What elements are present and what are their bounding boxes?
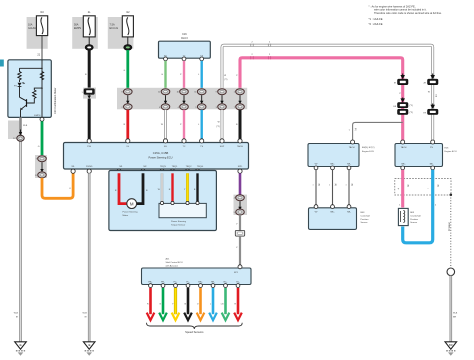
meter internal wire right branch <box>41 60 43 118</box>
camshaft position sensor box B63 <box>309 208 357 230</box>
svg-text:G: G <box>38 146 40 148</box>
PS ECU top pin SIL <box>163 139 167 143</box>
svg-text:GAUGE: GAUGE <box>28 27 37 30</box>
svg-text:W: W <box>428 92 430 94</box>
svg-text:EMPS: EMPS <box>74 27 81 30</box>
svg-text:PGND: PGND <box>86 166 93 168</box>
svg-text:NE-: NE- <box>347 212 351 214</box>
wire gray SPD to inline connector <box>239 215 241 231</box>
svg-text:BR: BR <box>449 343 453 347</box>
svg-text:I10: I10 <box>40 11 44 14</box>
svg-text:Power Steering ECU: Power Steering ECU <box>149 155 173 159</box>
ground symbol PGND <box>83 342 95 356</box>
svg-text:(*1): (*1) <box>410 105 414 107</box>
svg-text:Sensor: Sensor <box>361 221 368 224</box>
wire pink DLC3 TC <box>183 61 185 89</box>
gray harness band middle <box>117 88 247 110</box>
brace speed sensors <box>147 323 243 329</box>
svg-text:(*2): (*2) <box>410 112 414 114</box>
svg-text:with Actuator: with Actuator <box>166 265 179 268</box>
wire pink NE+ to crankshaft sensor <box>401 170 404 208</box>
wire gray shield to ground <box>449 276 452 342</box>
svg-text:EMPS: EMPS <box>34 115 41 117</box>
junction connector on black wire <box>83 88 96 99</box>
meter internal base network <box>34 88 42 90</box>
wire white SUP up and across to PS pin of E05 ECU <box>222 45 433 140</box>
svg-text:TACH: TACH <box>349 146 355 149</box>
wire white band to SIL <box>161 110 166 141</box>
arrow and connector on white PS wire lower <box>424 104 438 115</box>
inline connector on SPD wire <box>235 231 244 237</box>
svg-text:C16: C16 <box>182 33 187 36</box>
connector pair on TS wire <box>194 89 206 110</box>
svg-text:W: W <box>218 122 220 124</box>
svg-text:Power Steering: Power Steering <box>171 220 187 223</box>
shield ground circle <box>447 268 455 276</box>
wire pink TACH across to E05 ECU <box>240 58 403 141</box>
connector pair on SIL wire <box>158 89 170 110</box>
wire blue band to TS <box>200 110 202 141</box>
svg-text:RL-: RL- <box>236 282 240 284</box>
wire black TRQG <box>196 173 198 202</box>
fuse F3 7.5A ECU-IG <box>110 11 134 37</box>
connector pair on SUP wire <box>216 89 227 110</box>
svg-text:W-B: W-B <box>23 125 28 127</box>
connector pair on green/red wire <box>121 89 132 110</box>
fuse F1 10A GAUGE <box>28 11 48 36</box>
skid control ECU A21 box <box>142 268 252 285</box>
arrow and connector on white PS wire upper <box>424 74 438 85</box>
gray harness band fuse F2 <box>72 17 98 49</box>
svg-text:NE-: NE- <box>347 163 351 165</box>
svg-text:Engine ECU: Engine ECU <box>445 151 457 153</box>
svg-text:TC: TC <box>183 146 186 148</box>
svg-text:W-B: W-B <box>82 313 87 315</box>
svg-text:NE-: NE- <box>430 163 434 165</box>
svg-text:Position: Position <box>410 218 419 221</box>
svg-text:(E): (E) <box>354 128 356 131</box>
svg-text:O: O <box>69 188 71 190</box>
gray band connector pair on green wire <box>35 155 47 178</box>
ground wire W-B from meter <box>19 117 22 341</box>
svg-text:W-B: W-B <box>14 313 19 315</box>
A21 bottom pin FL+ and speed sensor wire <box>172 282 180 321</box>
wire yellow TRQ2 <box>184 173 188 202</box>
power steering ECU box <box>64 143 249 170</box>
svg-text:G: G <box>123 70 125 72</box>
engine ECU 1 box <box>308 144 359 167</box>
PS ECU top pin IG <box>126 139 130 143</box>
svg-text:Therefore wire color code is s: Therefore wire color code is shown as li… <box>374 11 442 15</box>
wire red band to IG <box>126 110 129 141</box>
svg-text:RR-: RR- <box>211 282 215 284</box>
DLC3 connector box C16 <box>159 41 211 58</box>
PS ECU top pin TC <box>182 139 186 143</box>
shield junction dot <box>450 194 453 197</box>
gray band below meter left pin <box>8 121 20 140</box>
svg-text:I12: I12 <box>126 11 130 14</box>
wire red TRQ1 <box>171 173 173 202</box>
svg-text:(E): (E) <box>317 184 319 187</box>
engine ECU 1 pin TACH <box>351 140 355 144</box>
shield drain dotted wire <box>450 195 452 268</box>
svg-text:Speed Sensors: Speed Sensors <box>185 330 204 334</box>
svg-text:*: * <box>313 185 314 188</box>
connector pair EB1 on pink TACH wire <box>394 98 414 115</box>
svg-text:Camshaft: Camshaft <box>361 214 371 217</box>
svg-text:(*2): (*2) <box>224 79 227 81</box>
engine ECU 2 box E05 <box>395 144 443 167</box>
wire black M- to motor <box>137 173 143 203</box>
arrow on ground wire <box>20 130 22 133</box>
svg-text:IE: IE <box>88 343 91 347</box>
svg-text:SPD: SPD <box>238 166 243 168</box>
A21 bottom pin RR- and speed sensor wire <box>209 282 217 321</box>
wire light green DLC3 SIL <box>164 61 166 89</box>
wire blue NE- loop to crankshaft sensor <box>403 170 433 243</box>
wire white band to SUP <box>216 110 222 141</box>
svg-text:G: G <box>161 74 163 76</box>
svg-text:BR: BR <box>453 317 456 319</box>
round connector IH1 <box>17 135 24 141</box>
svg-text:Skid Control ECU: Skid Control ECU <box>166 261 184 264</box>
svg-text:Power Steering: Power Steering <box>123 211 139 214</box>
svg-text:Motor: Motor <box>123 214 129 217</box>
svg-text:Sensor: Sensor <box>410 221 417 224</box>
power steering motor and torque sensor assembly box <box>109 171 216 231</box>
svg-text:*: * <box>329 185 330 188</box>
svg-text:(E): (E) <box>350 184 352 187</box>
teal page-link mark <box>0 60 4 67</box>
connector below fuse F3 <box>127 37 129 45</box>
PS ECU top pin SUP <box>220 139 224 143</box>
ground symbol IE <box>15 342 27 356</box>
motor M1 power steering motor <box>127 199 137 209</box>
arrow and connector E04 on pink TACH wire <box>394 74 408 85</box>
resistor R3 base <box>27 90 36 103</box>
svg-text:(E): (E) <box>407 185 409 188</box>
svg-text:PIG: PIG <box>87 146 91 148</box>
svg-text:C10 Combination Meter: C10 Combination Meter <box>54 87 57 114</box>
gray harness band fuse F1 <box>27 17 48 49</box>
svg-text:M: M <box>130 201 134 206</box>
fuse F2 50A EMPS <box>74 11 95 37</box>
svg-text:FR-: FR- <box>161 282 165 284</box>
PS ECU top pin TACH <box>238 139 242 143</box>
wire fuse F1 to combination meter <box>41 36 43 60</box>
gray band connector pair on SPD wire <box>234 195 248 215</box>
svg-text:+: + <box>398 186 400 190</box>
svg-text:-: - <box>428 186 429 190</box>
wire black fuse F2 to PIG <box>88 50 91 141</box>
junction break marks on pink wire <box>251 54 271 59</box>
ground symbol shield <box>445 342 457 356</box>
engine ECU 2 pin PS <box>431 140 435 144</box>
A21 bottom pin RR+ and speed sensor wire <box>197 282 205 321</box>
svg-text:TRQ2: TRQ2 <box>186 166 193 168</box>
wire gray PGND to ground <box>88 173 91 341</box>
wire branch to engine ECU 1 TACH <box>353 122 403 140</box>
A21 bottom pin FR- and speed sensor wire <box>159 282 167 321</box>
crankshaft position sensor B63 symbol <box>398 208 408 225</box>
transistor Q1 <box>20 87 27 118</box>
svg-text:IE: IE <box>19 343 22 347</box>
svg-text:TRQG: TRQG <box>197 166 204 168</box>
wire blue DLC3 TS <box>200 61 202 89</box>
svg-text:W: W <box>224 75 226 77</box>
svg-text:(E): (E) <box>437 185 439 188</box>
svg-text:LG: LG <box>221 304 224 306</box>
svg-text:Crankshaft: Crankshaft <box>410 214 421 217</box>
wire red M+ to motor <box>119 173 127 203</box>
wire green meter EMPS to connector <box>41 121 44 156</box>
svg-text:SUP: SUP <box>220 146 225 148</box>
A21 bottom pin RL+ and speed sensor wire <box>221 282 230 321</box>
engine ECU 2 pin TACH <box>401 140 405 144</box>
svg-text:IG: IG <box>127 146 130 148</box>
wires engine ECU 1 to camshaft sensor <box>313 170 353 205</box>
shield dashed box around NE wires <box>395 179 451 195</box>
svg-text:*: * <box>346 185 347 188</box>
svg-text:TRQV: TRQV <box>160 166 167 168</box>
svg-text:Position: Position <box>361 218 370 221</box>
wire orange to PS ECU WL <box>42 172 73 199</box>
svg-text:1C: 1C <box>13 138 16 140</box>
svg-text:DLC3: DLC3 <box>181 37 188 40</box>
wire pink band to TC <box>183 110 185 141</box>
A21 top pin SP1 <box>238 265 242 269</box>
svg-text:Torque Sensor: Torque Sensor <box>171 223 185 226</box>
wire purple SPD down <box>239 173 242 195</box>
svg-text:TACH: TACH <box>237 145 243 148</box>
resistor R2 right branch <box>40 72 43 80</box>
wire gray SPD to skid control ECU <box>239 236 241 266</box>
svg-text:TRQ1: TRQ1 <box>172 166 179 168</box>
svg-text:*1 : 1AZ-FE: *1 : 1AZ-FE <box>369 17 383 21</box>
resistor R1 left branch <box>18 68 21 82</box>
PS ECU top pin TS <box>200 139 204 143</box>
gray harness band fuse F3 <box>108 17 134 49</box>
PS ECU top pin PIG <box>87 139 91 143</box>
torque sensor box <box>159 203 206 217</box>
svg-text:TACH: TACH <box>401 146 407 149</box>
svg-text:FL-: FL- <box>186 282 189 284</box>
svg-text:(E): (E) <box>334 184 336 187</box>
svg-text:C15A, C15B: C15A, C15B <box>153 151 169 155</box>
LED EMPS warning lamp <box>14 82 25 87</box>
wire black band to TACH <box>239 110 242 141</box>
connector pair on TACH wire <box>234 89 245 110</box>
svg-text:Engine ECU: Engine ECU <box>362 151 374 153</box>
meter internal wire top horizontal <box>20 67 43 69</box>
svg-text:(*2): (*2) <box>216 126 220 128</box>
connector below fuse F2 <box>88 37 90 45</box>
svg-text:E6(B), E7(C): E6(B), E7(C) <box>362 147 375 149</box>
junction break marks on white wire <box>251 41 271 46</box>
svg-text:*2 : 2AZ-FE: *2 : 2AZ-FE <box>369 22 383 26</box>
wire white TRQV <box>158 173 162 202</box>
svg-text:*: * <box>349 129 350 133</box>
svg-text:W-B: W-B <box>453 313 458 315</box>
svg-text:ECU-IG: ECU-IG <box>110 27 119 30</box>
note text engine wire harness <box>369 5 443 27</box>
wire green fuse F3 to band <box>126 50 129 89</box>
A21 bottom pin FR+ and speed sensor wire <box>147 282 155 321</box>
connector pair on TC wire <box>177 89 189 110</box>
A21 bottom pin RL- and speed sensor wire <box>234 282 242 321</box>
svg-text:(SHIELD): (SHIELD) <box>447 222 449 231</box>
combination meter C10 box <box>8 60 51 118</box>
svg-text:(*2): (*2) <box>435 94 437 98</box>
A21 bottom pin FL- and speed sensor wire <box>184 282 192 321</box>
